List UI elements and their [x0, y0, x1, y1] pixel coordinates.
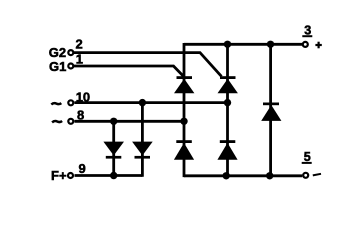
svg-text:F+: F+: [51, 168, 67, 183]
svg-text:1: 1: [76, 52, 83, 67]
svg-text:2: 2: [76, 37, 83, 52]
svg-text:G2: G2: [49, 45, 66, 60]
svg-text:10: 10: [76, 89, 90, 104]
svg-text:G1: G1: [49, 59, 66, 74]
svg-text:9: 9: [79, 161, 86, 176]
svg-text:8: 8: [77, 107, 84, 122]
